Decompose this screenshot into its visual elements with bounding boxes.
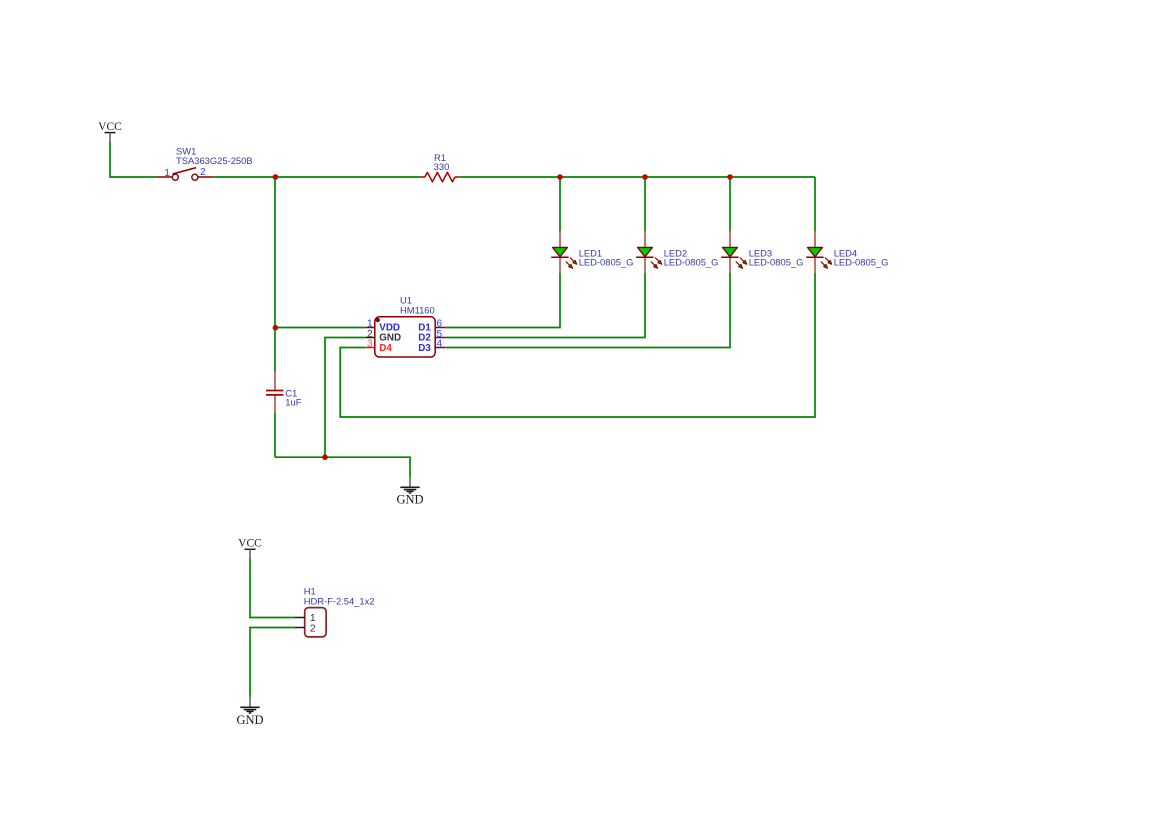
ground GND (lower section) [236,697,263,727]
svg-text:4: 4 [437,338,443,349]
svg-text:D2: D2 [418,333,431,344]
wire top rail down to LED3 anode [729,177,731,232]
op-amp/IC U1 HM1160 body [375,317,435,357]
power VCC (net flag, top-left) [98,121,122,142]
LED LED2 LED-0805_G [636,232,662,273]
wire U1 pin2 (GND) down to bottom rail [325,338,365,458]
svg-text:330: 330 [434,161,450,172]
wire node A to R1 [275,176,420,178]
svg-text:1: 1 [367,318,373,329]
node junction dot at (275,327.5) [273,325,279,331]
svg-text:VCC: VCC [238,538,262,550]
svg-text:VCC: VCC [98,121,122,133]
LED LED4 LED-0805_G [806,232,832,273]
svg-text:D4: D4 [379,343,392,354]
wire LED4 cathode around bottom to U1 pin3 [340,273,815,417]
svg-text:HM1160: HM1160 [400,304,435,315]
svg-text:GND: GND [379,333,401,344]
node junction dot at (645,177) [642,174,648,180]
U1 pin 6 stub (D1) [435,327,445,329]
U1 pin 2 stub (GND) [365,337,375,339]
LED LED3 LED-0805_G [721,232,747,273]
wire top rail down to LED1 anode [559,177,561,232]
H1 pin 1 stub [295,617,305,619]
svg-text:D3: D3 [418,343,431,354]
svg-text:2: 2 [310,622,316,634]
wire LED3 cathode to U1 pin4 [445,273,730,348]
svg-text:6: 6 [437,318,443,329]
svg-text:GND: GND [396,492,423,506]
svg-text:LED-0805_G: LED-0805_G [834,256,889,267]
node junction dot at (325,457) [322,454,328,460]
wire C1 bottom to bottom rail [274,412,276,457]
ground GND (upper section) [396,477,423,506]
U1 pin 4 stub (D3) [435,347,445,349]
wire LED1 cathode to U1 pin6 [445,273,560,328]
svg-text:LED-0805_G: LED-0805_G [664,256,719,267]
U1 pin 3 stub (D4) [365,347,375,349]
wire R1 to LED4 column (top rail) [460,176,815,178]
svg-text:HDR-F-2.54_1x2: HDR-F-2.54_1x2 [304,595,375,606]
svg-text:LED-0805_G: LED-0805_G [579,256,634,267]
LED LED1 LED-0805_G [551,232,577,273]
node A junction dot at (275,177) [273,174,279,180]
node junction dot at (730,177) [727,174,733,180]
svg-text:TSA363G25-250B: TSA363G25-250B [176,155,253,166]
connector H1 HDR-F-2.54_1x2 body [305,608,326,637]
wire bottom rail to GND drop [275,457,410,477]
wire node A rail down to U1 pin1 / C1 [274,177,276,372]
svg-text:1uF: 1uF [285,397,301,408]
wire LED2 cathode to U1 pin5 [445,273,645,338]
wire SW1 pin2 to node A [214,176,275,178]
wire U1 pin1 to VCC rail [275,327,365,329]
H1 pin 2 stub [295,627,305,629]
wire VCC down to H1 pin1 [250,559,295,618]
wire VCC down and to SW1 pin1 [110,142,155,177]
svg-text:1: 1 [164,168,170,179]
U1 pin 1 stub (VDD) [365,327,375,329]
U1 pin 5 stub (D2) [435,337,445,339]
svg-text:GND: GND [236,713,263,727]
wire H1 pin2 down to GND [250,628,295,698]
switch SW1 TSA363G25-250B [155,168,214,181]
wire top rail down to LED2 anode [644,177,646,232]
capacitor C1 1uF [266,372,283,412]
wire top rail down to LED4 anode [814,177,816,232]
power VCC (net flag, lower section) [238,538,262,559]
svg-text:3: 3 [367,338,373,349]
svg-text:2: 2 [200,167,206,178]
resistor R1 330 [420,172,460,181]
svg-text:LED-0805_G: LED-0805_G [749,256,804,267]
node junction dot at (560,177) [557,174,563,180]
